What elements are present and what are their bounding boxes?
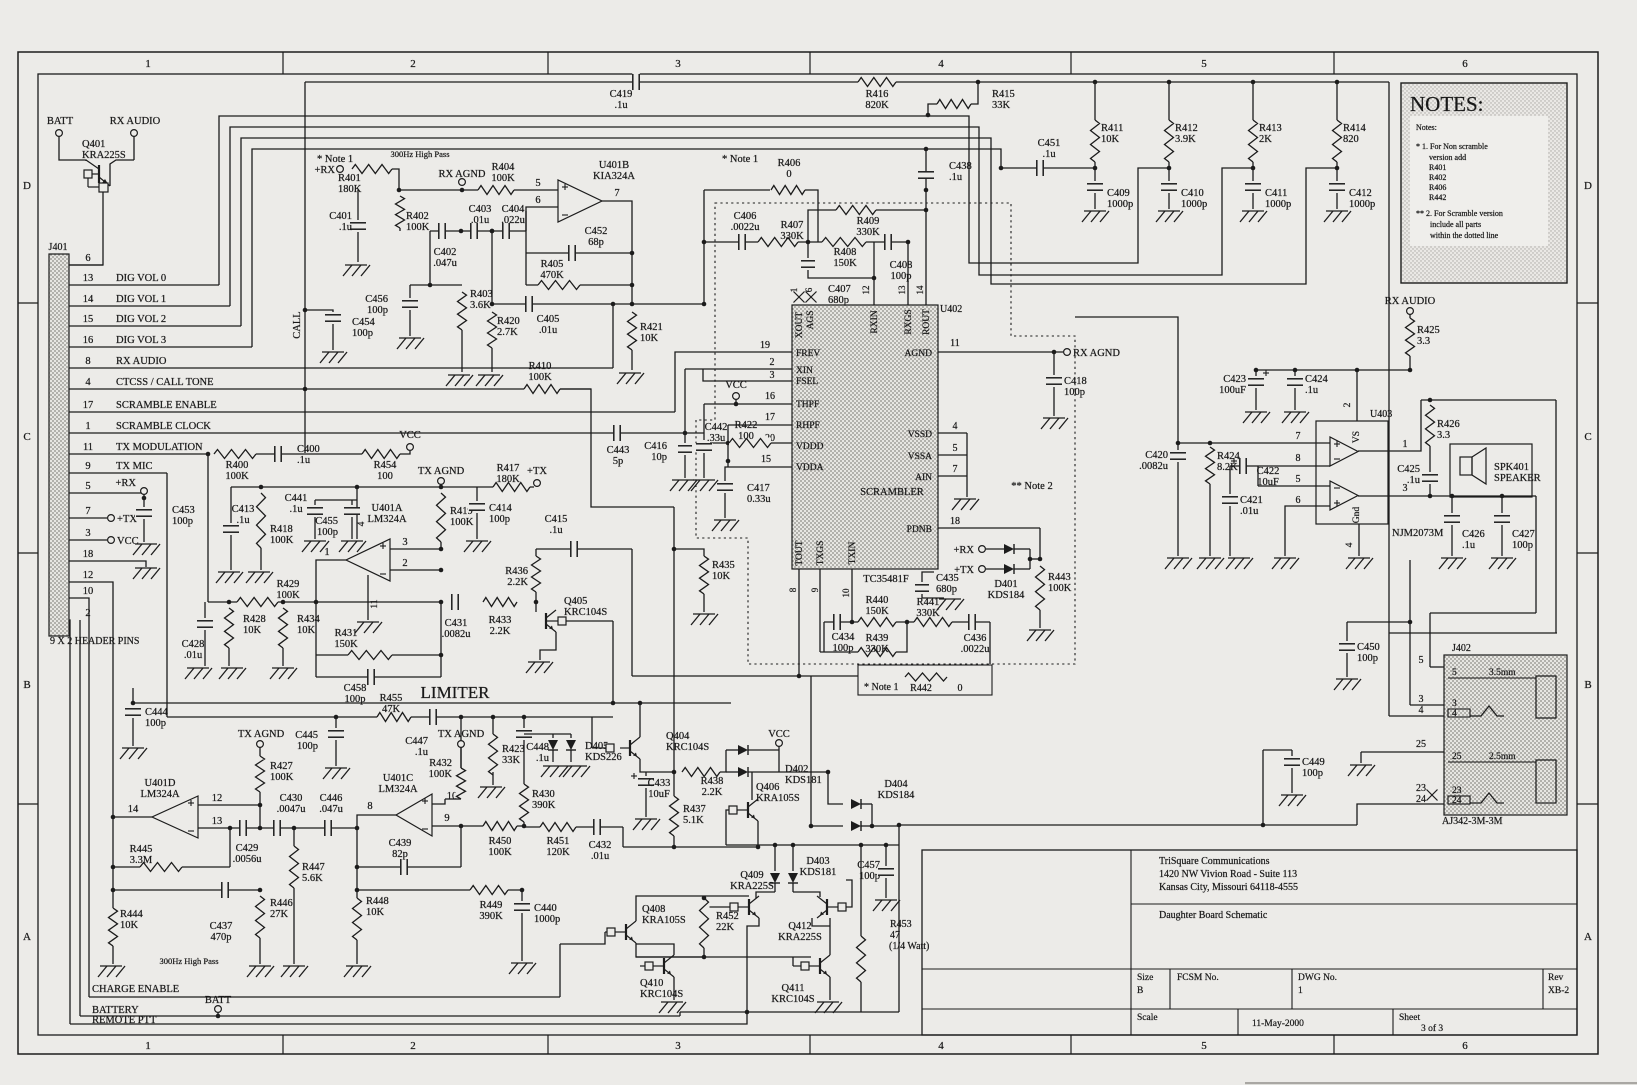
wire C417 down [724, 493, 726, 518]
svg-text:** 2. For Scramble version: ** 2. For Scramble version [1416, 209, 1503, 218]
diode D405a [548, 734, 558, 762]
ground R420 [476, 375, 503, 386]
svg-text:100p: 100p [172, 516, 193, 527]
ground D405 left [541, 766, 568, 777]
wire Q411 coll [829, 918, 831, 955]
svg-text:AJ342-3M-3M: AJ342-3M-3M [1442, 816, 1503, 827]
wire pin1 [1358, 400, 1421, 451]
resistor R451 [540, 822, 576, 859]
border tick bottom 3 [809, 1035, 811, 1054]
svg-text:68p: 68p [588, 237, 604, 248]
wire TXMOD riser [207, 454, 209, 602]
svg-text:C447: C447 [405, 736, 428, 747]
wire R445 row [113, 866, 230, 868]
diode D401a [986, 544, 1030, 554]
ground C449 [1279, 795, 1306, 806]
terminal +RX [141, 488, 148, 495]
junction pin3 C427 [1500, 494, 1505, 499]
svg-text:100p: 100p [1357, 653, 1378, 664]
svg-text:R448: R448 [366, 896, 389, 907]
svg-text:R400: R400 [226, 460, 249, 471]
junction row845 d403a [773, 843, 778, 848]
svg-text:100K: 100K [488, 847, 512, 858]
svg-text:100p: 100p [489, 514, 510, 525]
wire fb top [525, 211, 527, 285]
junction R427 row [258, 826, 263, 831]
wire Q408 base row [560, 932, 605, 944]
svg-text:.047u: .047u [319, 804, 343, 815]
svg-text:C408: C408 [890, 260, 913, 271]
terminal VCC THPF [733, 393, 740, 400]
wire J401 pin 7 [69, 517, 107, 519]
title block divider h1 [1131, 903, 1577, 905]
capacitor C411 [1244, 183, 1291, 210]
wire R434 down [282, 648, 284, 666]
wire R454 VCC [400, 451, 410, 454]
wire R445 right [229, 828, 231, 867]
svg-text:TXGS: TXGS [816, 541, 826, 566]
resistor R442 [905, 672, 947, 682]
svg-text:13: 13 [83, 273, 94, 284]
svg-text:5: 5 [1452, 668, 1457, 678]
capacitor C438 [917, 161, 972, 183]
resistor R402 [395, 196, 430, 233]
wire C457 down [885, 878, 887, 898]
svg-text:KRC104S: KRC104S [564, 607, 607, 618]
svg-text:RX AUDIO: RX AUDIO [116, 356, 167, 367]
wire row602 [208, 601, 441, 603]
svg-text:100K: 100K [491, 173, 515, 184]
wire C424 riser [1294, 370, 1296, 376]
wire row847 [623, 846, 758, 848]
svg-text:3: 3 [1452, 699, 1457, 709]
wire R436 top [535, 549, 537, 556]
resistor R404 [478, 162, 515, 196]
transistor Q410 [640, 955, 674, 977]
svg-text:C451: C451 [1038, 138, 1061, 149]
wire clock row [610, 432, 704, 434]
ground C433 [633, 819, 660, 830]
svg-text:Q401: Q401 [82, 139, 105, 150]
wire VCC THPF stub [735, 399, 737, 404]
wire C445 down [335, 740, 337, 766]
svg-text:FREV: FREV [796, 349, 820, 359]
wire J401 pin 14 (DIG VOL 1) [69, 305, 230, 307]
capacitor C435 [914, 573, 959, 595]
svg-text:C456: C456 [365, 294, 388, 305]
svg-text:R408: R408 [834, 247, 857, 258]
svg-text:5: 5 [535, 178, 540, 189]
svg-text:C445: C445 [295, 730, 318, 741]
amplifier U403 body [1316, 421, 1388, 524]
svg-text:SCRAMBLE CLOCK: SCRAMBLE CLOCK [116, 421, 211, 432]
svg-text:SPEAKER: SPEAKER [1494, 473, 1541, 484]
junction row890 r [258, 888, 263, 893]
wire Q410 emit [673, 977, 675, 1000]
svg-text:R437: R437 [683, 804, 706, 815]
border tick left 1 [18, 302, 38, 304]
resistor R420 [487, 312, 520, 348]
svg-text:VSSA: VSSA [908, 452, 932, 462]
transistor Q404 [592, 737, 640, 759]
wire C454 down [332, 324, 334, 350]
resistor R439 [858, 633, 896, 658]
wire C448 down [523, 740, 525, 784]
wire bus DIG VOL 2 [241, 138, 1337, 326]
transistor Q406 [729, 799, 758, 821]
junction rail R425 [1408, 368, 1413, 373]
svg-text:R427: R427 [270, 761, 293, 772]
svg-text:KDS184: KDS184 [878, 790, 916, 801]
junction row285 C456 [428, 283, 433, 288]
svg-text:C411: C411 [1265, 188, 1287, 199]
wire C412 riser [1336, 168, 1338, 181]
svg-text:KRA105S: KRA105S [756, 793, 800, 804]
wire VSSA [938, 454, 967, 456]
svg-text:Daughter Board Schematic: Daughter Board Schematic [1159, 910, 1268, 921]
wire long row676 [632, 675, 858, 677]
svg-text:R418: R418 [270, 524, 293, 535]
svg-text:19: 19 [760, 340, 770, 351]
svg-text:330K: 330K [856, 227, 880, 238]
svg-text:1000p: 1000p [1181, 199, 1207, 210]
svg-text:.0022u: .0022u [961, 644, 991, 655]
title block divider v5 [1237, 1009, 1239, 1035]
ground pin11 [355, 622, 382, 633]
wire rail703 [133, 702, 731, 704]
svg-text:A: A [1584, 931, 1592, 943]
capacitor C419 [610, 73, 640, 111]
junction C451 left [999, 166, 1004, 171]
capacitor C449 [1283, 757, 1325, 779]
capacitor C431 [442, 593, 472, 640]
wire D405 arm [524, 733, 553, 735]
svg-text:11: 11 [83, 442, 93, 453]
svg-text:U401B: U401B [599, 160, 629, 171]
svg-text:R417: R417 [497, 463, 520, 474]
wire C418 down [1053, 387, 1055, 416]
svg-text:.1u: .1u [1407, 475, 1421, 486]
wire C401 gnd [357, 232, 359, 262]
wire U403 pin4 [1358, 524, 1360, 556]
wire C420 feed [1075, 317, 1178, 443]
svg-text:Scale: Scale [1137, 1013, 1158, 1023]
svg-text:18: 18 [83, 549, 94, 560]
svg-text:100p: 100p [352, 328, 373, 339]
wire remote ptt row [70, 1012, 747, 1024]
resistor R436 [505, 556, 541, 592]
svg-text:NJM2073M: NJM2073M [1392, 528, 1444, 539]
svg-text:C432: C432 [589, 840, 612, 851]
wire XIN [685, 368, 792, 370]
resistor R444 [108, 908, 144, 946]
capacitor C432 [589, 818, 612, 862]
wire fb right [440, 602, 442, 677]
op-amp U401A [346, 539, 390, 581]
wire C409 down [1094, 193, 1096, 209]
op-amp U401C [396, 794, 432, 836]
svg-text:C446: C446 [320, 793, 343, 804]
svg-text:within the dotted line: within the dotted line [1430, 231, 1499, 240]
svg-text:LIMITER: LIMITER [421, 683, 491, 702]
title block divider v4 [1542, 969, 1544, 1009]
wire bus DIG VOL 1 [230, 127, 1253, 306]
svg-text:.01u: .01u [591, 851, 610, 862]
wire +TX stub [536, 486, 538, 487]
wire C426 riser [1451, 496, 1453, 513]
wire Q406 emit [757, 821, 759, 847]
svg-text:5: 5 [1296, 474, 1301, 485]
svg-text:R406: R406 [1429, 183, 1446, 192]
wire C416 down [684, 455, 686, 478]
svg-text:Notes:: Notes: [1416, 123, 1437, 132]
svg-text:C416: C416 [644, 441, 667, 452]
capacitor C415 [545, 514, 578, 558]
junction rail C448 [522, 715, 527, 720]
svg-text:R426: R426 [1437, 419, 1460, 430]
svg-text:180K: 180K [496, 474, 520, 485]
junction C433 R438 [672, 770, 677, 775]
ground C423 [1243, 412, 1270, 423]
junction rail C424 [1293, 368, 1298, 373]
ground C411 [1240, 211, 1267, 222]
svg-text:TX MIC: TX MIC [116, 461, 152, 472]
svg-text:8: 8 [367, 801, 372, 812]
svg-text:VCC: VCC [725, 380, 747, 391]
wire R406 row [704, 189, 771, 191]
wire U401C pin10 [432, 799, 445, 804]
ground R424 [1197, 558, 1224, 569]
wire J401 pin 12 [69, 582, 113, 817]
svg-text:R433: R433 [489, 615, 512, 626]
svg-text:47K: 47K [382, 704, 401, 715]
svg-text:11: 11 [370, 599, 380, 608]
svg-text:ROUT: ROUT [922, 309, 932, 335]
ground R418 [246, 572, 273, 583]
svg-text:390K: 390K [532, 800, 556, 811]
junction RX AGND [460, 188, 465, 193]
svg-text:13: 13 [897, 285, 907, 295]
terminal +RX note1 [337, 166, 344, 173]
svg-text:R411: R411 [1101, 123, 1123, 134]
svg-text:KDS226: KDS226 [585, 752, 622, 763]
svg-text:C406: C406 [734, 211, 757, 222]
junction C438 top [924, 147, 929, 152]
junction R412 C410 [1167, 166, 1172, 171]
svg-text:+RX: +RX [115, 478, 136, 489]
wire R453 top [860, 845, 862, 936]
resistor R407 [758, 220, 804, 248]
wire C449 stub [1291, 750, 1293, 756]
ground C427 [1489, 558, 1516, 569]
svg-text:CALL: CALL [292, 311, 303, 338]
wire C401 riser [357, 190, 359, 220]
svg-text:100K: 100K [406, 222, 430, 233]
capacitor C434 [832, 613, 856, 654]
wire charge riser [559, 944, 561, 997]
wire R415 to bus [971, 82, 978, 104]
wire row549 [536, 548, 632, 550]
ground R447 [281, 966, 308, 977]
svg-text:16: 16 [765, 391, 775, 402]
junction pin7 R424 [1208, 441, 1213, 446]
junction TXIN row [850, 620, 855, 625]
wire C424 down [1294, 388, 1296, 410]
resistor R446 [255, 896, 293, 938]
wire J401 pin 18 [69, 561, 146, 567]
svg-text:7: 7 [1296, 431, 1301, 442]
junction row602 b [281, 600, 286, 605]
svg-text:1: 1 [1403, 439, 1408, 450]
svg-text:C403: C403 [469, 204, 492, 215]
svg-text:4: 4 [938, 1040, 944, 1052]
junction row304 out [630, 302, 635, 307]
wire R444 down [112, 946, 114, 964]
wire J401 pin 2 [69, 620, 70, 1024]
terminal BATT [56, 130, 63, 137]
svg-text:1: 1 [85, 421, 90, 432]
svg-text:5.1K: 5.1K [683, 815, 704, 826]
terminal +TX row487 [534, 480, 541, 487]
ground C410 [1156, 211, 1183, 222]
wire C449 riser [1262, 750, 1264, 825]
svg-text:Q411: Q411 [782, 983, 805, 994]
svg-text:0.33u: 0.33u [747, 494, 771, 505]
terminal BATT bottom [215, 1006, 222, 1013]
wire j402 pin4 wire [1389, 715, 1444, 717]
transistor Q409 [730, 896, 759, 918]
wire Q405 emitter [540, 632, 556, 660]
junction R412 bus [1167, 80, 1172, 85]
wire U401B out [602, 201, 632, 304]
junction row890 R448 [355, 888, 360, 893]
svg-text:3: 3 [1403, 483, 1408, 494]
svg-text:10: 10 [83, 586, 94, 597]
wire tx row622 [824, 621, 990, 623]
resistor R448 [352, 896, 389, 940]
junction Q404 rail [638, 701, 643, 706]
transistor Q412 label [778, 921, 822, 943]
svg-text:C426: C426 [1462, 529, 1485, 540]
svg-text:82p: 82p [392, 849, 408, 860]
capacitor C433 [631, 773, 670, 800]
capacitor C444 [124, 707, 169, 729]
junction D404 row826 [809, 824, 814, 829]
svg-text:U402: U402 [940, 304, 962, 315]
wire j402 link4 [1389, 632, 1557, 634]
svg-text:version add: version add [1429, 153, 1466, 162]
resistor R405 [538, 259, 580, 291]
junction row890 l [111, 888, 116, 893]
svg-text:TX AGND: TX AGND [238, 729, 285, 740]
wire U401A out [316, 560, 346, 602]
capacitor C443 [607, 424, 630, 467]
wire pin7 [1178, 442, 1330, 444]
svg-text:VCC: VCC [399, 430, 421, 441]
capacitor C454 [324, 314, 376, 339]
svg-text:100p: 100p [145, 718, 166, 729]
wire C451 row [1001, 167, 1095, 169]
junction row826 R430 [522, 824, 527, 829]
svg-text:AGS: AGS [806, 310, 816, 329]
svg-text:23: 23 [1452, 786, 1462, 796]
svg-text:12: 12 [212, 793, 223, 804]
wire j402 pin25 wire [1361, 751, 1444, 753]
svg-text:D403: D403 [806, 856, 829, 867]
svg-text:D: D [1584, 180, 1592, 192]
wire bottom long [899, 824, 1357, 826]
svg-text:4: 4 [85, 377, 91, 388]
ground C424 [1282, 412, 1309, 423]
wire R448 link [356, 867, 358, 898]
resistor R425 [1405, 318, 1440, 356]
svg-text:C404: C404 [502, 204, 526, 215]
junction rail C444 [131, 701, 136, 706]
junction C438 bottom [924, 188, 929, 193]
terminal +TX pin7 [108, 515, 115, 522]
svg-text:10K: 10K [1101, 134, 1120, 145]
svg-text:AGND: AGND [905, 349, 933, 359]
ground C454 [320, 352, 347, 363]
junction R401 R402 [397, 188, 402, 193]
ground C441 [302, 541, 329, 552]
wire Q406 base [726, 810, 729, 845]
svg-text:C428: C428 [182, 639, 205, 650]
wire pin6 amp [1285, 506, 1330, 556]
wire R415 row [928, 104, 937, 115]
wire R432 top stub [460, 747, 462, 768]
svg-text:D401: D401 [994, 579, 1017, 590]
svg-text:TX MODULATION: TX MODULATION [116, 442, 203, 453]
svg-text:3: 3 [85, 528, 90, 539]
junction D404 out [870, 824, 875, 829]
wire C435 gnd [922, 594, 944, 598]
svg-text:.1u: .1u [1462, 540, 1476, 551]
svg-text:680p: 680p [936, 584, 957, 595]
svg-text:C422: C422 [1257, 466, 1280, 477]
junction D401 [1028, 557, 1033, 562]
svg-text:C436: C436 [964, 633, 987, 644]
capacitor C406 [731, 211, 761, 251]
wire row957 ext [636, 956, 811, 958]
svg-text:13: 13 [212, 816, 223, 827]
wire spk right drop [1555, 400, 1557, 633]
junction R414 C412 [1335, 166, 1340, 171]
capacitor C456 [365, 294, 419, 316]
svg-text:R430: R430 [532, 789, 555, 800]
wire R411 top [1094, 82, 1096, 120]
wire RX AUDIO to Q401 [133, 136, 135, 160]
wire R410 drop [560, 389, 674, 507]
svg-text:R412: R412 [1175, 123, 1198, 134]
capacitor C428 [182, 620, 214, 661]
svg-text:10K: 10K [366, 907, 385, 918]
op-amp U401D [152, 796, 198, 838]
border tick bottom 2 [547, 1035, 549, 1054]
wire C441 C455 tie [315, 499, 357, 501]
svg-text:R432: R432 [429, 758, 452, 769]
svg-text:Kansas City, Missouri 64118-4: Kansas City, Missouri 64118-4555 [1159, 882, 1298, 893]
svg-text:C430: C430 [280, 793, 303, 804]
svg-text:.1u: .1u [1042, 149, 1056, 160]
junction rail C445 [334, 715, 339, 720]
resistor R441 [914, 597, 952, 628]
junction row487 R418 [259, 485, 264, 490]
svg-text:R402: R402 [1429, 173, 1446, 182]
junction R405 out [630, 283, 635, 288]
ground C421 [1226, 558, 1253, 569]
wire C426 down [1451, 525, 1453, 556]
